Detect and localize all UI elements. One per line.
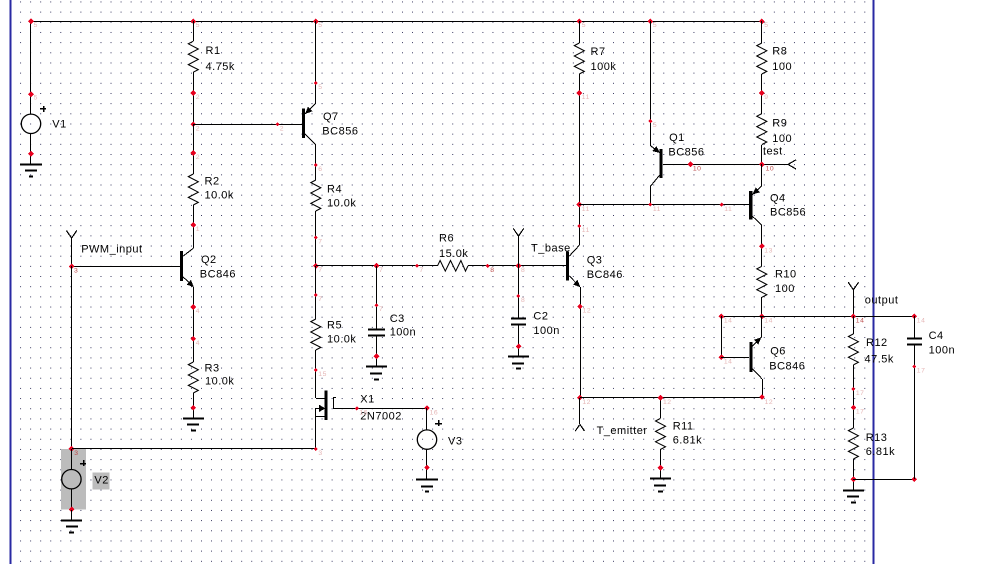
wire top to R7 [579, 21, 581, 43]
transistor Q7 base bar [302, 108, 305, 137]
transistor Q2 base bar [180, 251, 183, 281]
pin C2 top [516, 294, 525, 304]
node R13 top pin [851, 405, 865, 416]
wire Q6 collector rail [762, 379, 764, 398]
wire R1 to node [193, 72, 195, 124]
svg-text:R8: R8 [772, 46, 787, 58]
node Q4 base junction [576, 202, 589, 213]
mosfet X1 drain stub [316, 398, 325, 400]
svg-text:R2: R2 [205, 175, 220, 187]
wire R10 to output junction [761, 297, 763, 316]
wire R13 to C4 bottom [853, 479, 914, 481]
svg-text:R7: R7 [591, 46, 606, 58]
svg-text:7: 7 [379, 267, 383, 274]
wire Q3 emitter lead [569, 276, 580, 287]
wire R6 right [468, 265, 566, 267]
capacitor C2 [511, 319, 526, 325]
node R6 branch junction [313, 263, 323, 274]
svg-text:8: 8 [490, 267, 494, 274]
node R2 bottom pin [190, 222, 200, 233]
svg-text:14: 14 [856, 318, 865, 325]
arrow Q4 emitter (PNP into bar) [753, 188, 760, 194]
wire Q3 emitter rail [580, 287, 582, 398]
wire Q7 collector to R4 [315, 145, 317, 180]
wire Q2 collector lead [182, 248, 194, 257]
label R6 [439, 232, 468, 260]
svg-text:12: 12 [765, 399, 774, 406]
resistor R2 [188, 174, 198, 205]
ground under C3 [366, 367, 387, 380]
resistor R11 [656, 418, 666, 449]
pin C4 bottom [912, 365, 925, 375]
label V2 [93, 472, 110, 489]
wire R11 bottom lead [660, 449, 662, 479]
resistor R6 [438, 261, 469, 272]
label C3 [390, 313, 416, 339]
svg-text:Q3: Q3 [587, 254, 603, 266]
svg-text:11: 11 [582, 227, 590, 234]
svg-text:5: 5 [764, 22, 768, 29]
svg-text:4.75k: 4.75k [206, 61, 235, 73]
node C3 bottom [374, 353, 380, 359]
svg-text:6.81k: 6.81k [673, 434, 702, 446]
svg-text:5: 5 [34, 95, 38, 102]
svg-text:14: 14 [764, 318, 773, 325]
node V1 plus pin [28, 91, 38, 101]
label Q1 [668, 132, 704, 159]
label R9 [772, 117, 792, 145]
wire R9 to test junction [761, 145, 763, 164]
wire Q6 emitter lead [752, 337, 762, 347]
arrow Q6 emitter (points away from bar) [754, 338, 761, 344]
node PWM_input junction [69, 263, 79, 274]
svg-text:100k: 100k [591, 61, 617, 73]
svg-text:Q2: Q2 [201, 254, 217, 266]
svg-text:17: 17 [856, 409, 865, 416]
svg-text:13: 13 [764, 247, 773, 254]
resistor R9 [757, 114, 767, 145]
ground under V3 [416, 480, 438, 492]
wire Q2 emitter to R3 [193, 287, 195, 362]
label C4 [929, 330, 955, 356]
svg-text:BC846: BC846 [769, 360, 805, 372]
ground under R13 [843, 491, 864, 503]
wire Q6 jog [721, 316, 723, 357]
ground under R3 [183, 419, 204, 431]
wire Q1 collector rail [650, 186, 652, 205]
transistor Q3 base bar [566, 251, 569, 280]
node Q3 emitter pin [577, 304, 591, 315]
node V1 minus pin [28, 151, 34, 157]
svg-text:15: 15 [318, 371, 327, 378]
svg-text:V3: V3 [448, 435, 462, 447]
voltage source V1 [21, 106, 46, 134]
svg-text:9: 9 [764, 94, 768, 101]
node R7 bottom [576, 90, 590, 101]
svg-text:12: 12 [663, 399, 672, 406]
wire Q3 collector lead [569, 245, 579, 256]
svg-text:BC846: BC846 [587, 269, 623, 281]
label Q6 [769, 345, 805, 372]
wire Q1 emitter lead [650, 146, 660, 153]
wire Q1 emitter rail [650, 21, 652, 146]
node V3 minus pin [424, 465, 430, 471]
svg-text:Q4: Q4 [770, 192, 786, 204]
svg-text:6.81k: 6.81k [866, 446, 895, 458]
resistor R12 [848, 334, 858, 365]
label R12 [865, 337, 894, 365]
arrow Q3 emitter [574, 280, 581, 286]
label Q4 [770, 192, 806, 218]
label V3 [448, 435, 462, 447]
wire Q2 emitter lead [182, 276, 194, 287]
page border right [873, 0, 875, 564]
wire top to R8 [761, 21, 763, 43]
svg-text:4: 4 [196, 308, 200, 315]
svg-text:11: 11 [724, 206, 732, 213]
node R3 top pin [190, 336, 200, 347]
node R8 bottom [759, 90, 769, 101]
svg-text:V2: V2 [94, 475, 108, 487]
ground under V1 [20, 165, 42, 177]
pin R12 bottom [851, 387, 864, 397]
node C3 junction [374, 263, 384, 274]
wire C3 bottom lead [376, 336, 378, 367]
svg-text:8: 8 [521, 297, 525, 304]
node tag PWM_input [66, 231, 76, 267]
svg-text:5: 5 [653, 22, 657, 29]
svg-text:R10: R10 [775, 268, 797, 280]
svg-text:17: 17 [917, 368, 926, 375]
svg-text:R9: R9 [772, 117, 787, 129]
arrow Q7 emitter (PNP into bar) [305, 107, 312, 113]
svg-text:4: 4 [196, 340, 200, 347]
svg-text:47.5k: 47.5k [865, 353, 894, 365]
svg-text:12: 12 [583, 308, 592, 315]
node V2 plus pin [69, 446, 79, 457]
svg-text:BC856: BC856 [322, 126, 358, 138]
node tag test [788, 160, 796, 169]
resistor R8 [757, 43, 767, 74]
wire R12 to R13 [853, 365, 855, 428]
node top rail / R8 [759, 19, 769, 30]
pin Q1 emitter [648, 119, 657, 129]
wire Q4 base [579, 204, 749, 206]
svg-text:12: 12 [582, 399, 591, 406]
pin R6 right [486, 264, 495, 274]
label X1 [360, 393, 402, 422]
mosfet X1 channel bar [325, 390, 328, 420]
label R5 [327, 319, 356, 345]
node R11 top [658, 395, 672, 406]
wire Q6 emitter rail [761, 316, 763, 337]
label T_base [531, 242, 571, 254]
svg-text:10.0k: 10.0k [205, 190, 234, 202]
node Q4 collector pin [759, 243, 773, 254]
label R2 [205, 175, 234, 201]
wire output to R12 [853, 316, 855, 334]
svg-text:R11: R11 [673, 420, 694, 432]
svg-text:8: 8 [521, 267, 525, 274]
arrow Q1 emitter (PNP into bar) [653, 147, 660, 153]
svg-text:14: 14 [724, 358, 733, 365]
transistor Q1 base bar [659, 149, 662, 178]
transistor Q6 base bar [749, 342, 752, 372]
svg-text:7: 7 [419, 267, 423, 274]
node R2 top pin [190, 150, 200, 161]
capacitor C4 [907, 339, 922, 345]
resistor R3 [188, 362, 198, 393]
node R1 bottom [190, 90, 200, 101]
svg-text:PWM_input: PWM_input [81, 244, 142, 256]
svg-text:T_emitter: T_emitter [597, 425, 648, 437]
svg-text:Q7: Q7 [323, 111, 339, 123]
transistor Q4 base bar [749, 191, 752, 220]
pin R6 left [415, 264, 424, 274]
svg-text:2: 2 [280, 126, 284, 133]
svg-text:2: 2 [196, 94, 200, 101]
svg-text:16: 16 [359, 409, 368, 416]
svg-text:11: 11 [582, 94, 590, 101]
node T_base junction [516, 263, 526, 274]
wire R3 to ground [193, 393, 195, 418]
pin R4 bottom [314, 235, 323, 245]
svg-text:100: 100 [772, 61, 792, 73]
resistor R10 [757, 266, 767, 297]
svg-text:C2: C2 [533, 310, 548, 322]
node C4 top junction [911, 313, 925, 324]
wire Q4 collector lead [752, 216, 761, 225]
svg-text:R5: R5 [327, 319, 342, 331]
wire V2 to ground [71, 510, 73, 520]
wire Q1 base lead [663, 164, 788, 166]
node Q6 collector pin [759, 394, 773, 406]
svg-text:5: 5 [34, 22, 38, 29]
wire R2 to Q2 collector [193, 205, 195, 248]
svg-text:T_base: T_base [531, 242, 571, 254]
svg-text:5: 5 [196, 22, 200, 29]
wire top rail [31, 21, 762, 23]
svg-text:R12: R12 [866, 337, 888, 349]
wire C4 top lead [914, 316, 916, 338]
node top rail / R1 [28, 18, 200, 29]
svg-text:11: 11 [653, 206, 661, 213]
svg-text:C3: C3 [390, 313, 405, 325]
wire R11 top lead [660, 398, 662, 418]
arrow Q2 emitter [187, 280, 194, 286]
mosfet X1 gate electrode [333, 398, 336, 409]
pin Q7 collector [314, 163, 323, 173]
label test [763, 145, 783, 157]
svg-text:100: 100 [772, 133, 792, 145]
wire X1 gate to V3 [333, 408, 427, 410]
pin R5 top [314, 293, 323, 303]
resistor R4 [311, 180, 321, 211]
svg-text:14: 14 [724, 318, 733, 325]
svg-text:BC856: BC856 [668, 146, 704, 158]
wire V2 rail [71, 266, 73, 449]
node tag output [848, 282, 858, 316]
svg-text:11: 11 [582, 206, 590, 213]
resistor R13 [848, 428, 858, 459]
svg-text:100: 100 [775, 283, 795, 295]
mosfet X1 body stub with arrow [316, 405, 325, 412]
wire R7 to Q3 collector [579, 74, 581, 245]
label R7 [591, 46, 617, 73]
wire Q1 collector lead [650, 175, 660, 187]
wire Q7 emitter rail [315, 21, 317, 103]
wire Q4 collector to R10 [761, 225, 763, 266]
wire C2 bottom lead [518, 325, 520, 357]
pin C3 top [374, 303, 383, 313]
wire Q7 emitter lead [305, 103, 316, 114]
label output [865, 294, 899, 306]
selection box V2 [61, 449, 86, 510]
svg-text:R4: R4 [327, 183, 342, 195]
svg-text:3: 3 [74, 267, 78, 274]
svg-text:R1: R1 [206, 45, 221, 57]
label R8 [772, 46, 792, 73]
label Q2 [200, 254, 236, 281]
label R11 [673, 420, 702, 446]
svg-text:R3: R3 [205, 362, 220, 374]
wire R5 to X1 drain [315, 350, 317, 398]
pin X1 gate [355, 406, 368, 416]
wire V2 to X1 source [72, 416, 316, 449]
page border left [10, 0, 12, 564]
wire Q7 collector lead [305, 134, 316, 145]
wire R4 to junction [315, 211, 317, 266]
node R11 bottom [658, 465, 664, 471]
resistor R1 [188, 41, 198, 72]
wire junction to R5 [315, 266, 317, 319]
mosfet X1 source stub [316, 408, 326, 417]
wire V1 to top rail [30, 21, 32, 114]
svg-text:V1: V1 [52, 119, 66, 131]
wire Q7 base lead [193, 124, 302, 126]
label R1 [206, 45, 235, 73]
voltage source V3 [417, 408, 442, 449]
wire C2 top lead [518, 266, 520, 318]
svg-text:10.0k: 10.0k [205, 376, 234, 388]
svg-text:10: 10 [693, 166, 702, 173]
node C2 bottom [516, 344, 522, 350]
svg-text:100n: 100n [533, 325, 559, 337]
ground under R11 [650, 479, 671, 492]
svg-text:7: 7 [379, 306, 383, 313]
wire Q6 collector lead [752, 369, 762, 379]
wire C4 bottom lead [914, 345, 916, 479]
wire V3 to ground [426, 449, 428, 480]
node V3 plus pin [424, 405, 438, 416]
svg-text:10.0k: 10.0k [327, 334, 356, 346]
label PWM_input [81, 244, 142, 256]
svg-text:3: 3 [74, 450, 78, 457]
pin Q7 emitter [314, 81, 323, 91]
node output junction mid [759, 314, 773, 325]
svg-text:C4: C4 [929, 330, 944, 342]
svg-text:100n: 100n [929, 344, 955, 356]
svg-text:5: 5 [318, 84, 322, 91]
wire Q4 emitter lead [752, 164, 761, 194]
ground under C2 [508, 357, 529, 369]
capacitor C3 [368, 330, 385, 336]
voltage source V2 [62, 449, 86, 510]
svg-text:7: 7 [318, 296, 322, 303]
svg-text:output: output [865, 294, 899, 306]
label R3 [205, 362, 235, 387]
node V2 minus pin [69, 507, 75, 513]
svg-text:14: 14 [917, 318, 926, 325]
resistor R7 [574, 43, 584, 74]
node C4 bottom junction [911, 476, 917, 482]
pin Q4 base [720, 203, 733, 213]
svg-text:7: 7 [318, 267, 322, 274]
pin X1 drain [314, 368, 327, 378]
svg-text:2: 2 [196, 154, 200, 161]
node tag T_base [513, 229, 523, 267]
pin Q1 collector junction [648, 203, 661, 213]
node T_emitter junction [577, 395, 591, 406]
svg-text:3: 3 [318, 450, 322, 457]
pin Q3 collector [577, 224, 590, 234]
node top rail / R7 [576, 18, 586, 29]
node test junction [759, 162, 774, 173]
svg-text:test: test [763, 145, 783, 157]
svg-text:10.0k: 10.0k [327, 198, 356, 210]
svg-text:1: 1 [196, 226, 200, 233]
svg-text:BC846: BC846 [200, 268, 236, 280]
wire R6 left [316, 265, 438, 267]
label Q3 [587, 254, 623, 281]
node tag T_emitter [575, 398, 584, 431]
wire Q2 base lead [72, 266, 180, 268]
svg-text:5: 5 [582, 22, 586, 29]
node top rail / Q7 emitter [313, 19, 323, 30]
label T_emitter [597, 425, 648, 437]
svg-text:Q1: Q1 [669, 132, 685, 144]
label Q7 [322, 111, 358, 137]
pin X1 source end [314, 447, 323, 457]
wire V1 to ground [30, 134, 32, 164]
pin Q7 base [276, 122, 285, 132]
node Q2 emitter pin [190, 304, 200, 315]
svg-text:2: 2 [196, 125, 200, 132]
node Q6 jog top [719, 314, 733, 325]
svg-text:R13: R13 [866, 432, 888, 444]
svg-text:6: 6 [318, 166, 322, 173]
svg-text:16: 16 [430, 409, 439, 416]
resistor R5 [311, 319, 321, 350]
wire T_emitter rail [580, 397, 762, 399]
svg-text:17: 17 [856, 390, 865, 397]
pin Q1 base [688, 161, 702, 172]
svg-text:5: 5 [653, 122, 657, 129]
node output R12 junction [850, 313, 864, 324]
wire output rail [721, 316, 914, 318]
node Q7 base junction [190, 121, 200, 132]
label C2 [533, 310, 559, 336]
node top rail / Q1 emitter [648, 19, 658, 30]
svg-text:7: 7 [318, 238, 322, 245]
svg-text:5: 5 [318, 22, 322, 29]
label R4 [327, 183, 356, 209]
wire Q6 base lead [721, 357, 749, 359]
ground under V2 [61, 521, 82, 533]
label R10 [775, 268, 797, 295]
wire C3 top lead [376, 266, 378, 329]
node Q6 base pin [719, 354, 733, 365]
